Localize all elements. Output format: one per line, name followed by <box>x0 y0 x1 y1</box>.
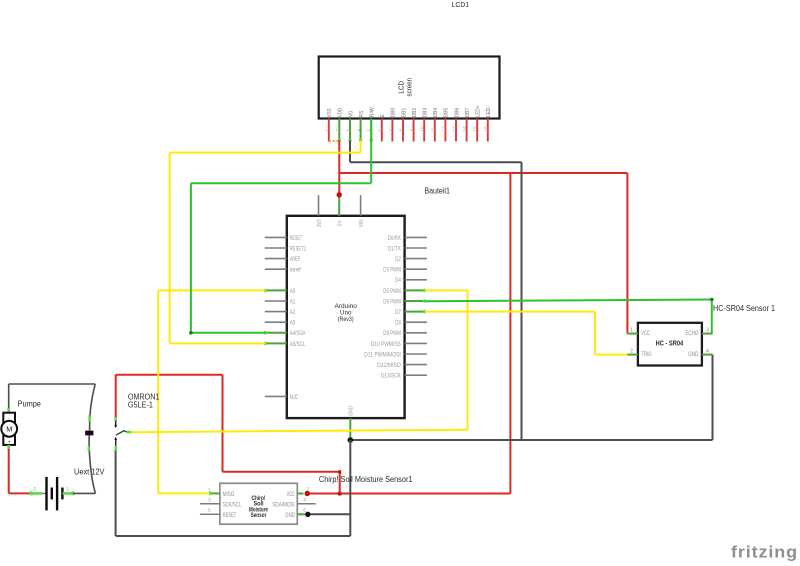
LCD pin 12 DB5 <box>441 108 450 142</box>
Arduino right pin D7 <box>395 310 426 316</box>
wire red branch to chirp VCC vertical <box>509 173 511 494</box>
Arduino Uno main body U1 <box>287 216 405 418</box>
svg-text:LCD1: LCD1 <box>452 0 470 9</box>
Arduino right pin D1/TX <box>388 246 427 252</box>
Arduino internal title <box>335 303 358 323</box>
svg-text:3: 3 <box>208 498 211 504</box>
svg-text:VCC: VCC <box>287 491 295 498</box>
junction 5V node red dot <box>337 192 342 197</box>
svg-text:4: 4 <box>706 349 709 355</box>
Arduino left pin ioref <box>265 268 301 274</box>
Arduino right pin D9 PWM <box>383 331 427 337</box>
svg-text:R/W: R/W <box>370 107 376 117</box>
wire green D6 to HC-SR04 ECHO <box>425 298 714 334</box>
svg-text:Chirp! Soil Moisture Sensor1: Chirp! Soil Moisture Sensor1 <box>319 475 413 484</box>
svg-text:16: 16 <box>483 126 488 131</box>
HC-SR04 pin 1 VCC <box>627 328 650 337</box>
svg-text:-: - <box>8 416 10 422</box>
svg-text:1: 1 <box>630 328 633 334</box>
HC-SR04 body U2 <box>638 323 702 366</box>
svg-text:E: E <box>380 114 386 117</box>
LCD pin 9 DB2 <box>409 108 418 142</box>
svg-text:TRIG: TRIG <box>641 351 651 358</box>
LCD screen body <box>319 57 500 119</box>
LCD pin 4 RS <box>356 111 365 142</box>
wire red to HC-SR04 VCC vertical <box>626 173 628 334</box>
svg-text:2: 2 <box>33 487 36 493</box>
battery cells <box>47 477 63 511</box>
svg-text:12: 12 <box>441 126 446 131</box>
Arduino pin 5V <box>338 195 344 226</box>
battery pin 2 (left) <box>29 487 46 495</box>
Arduino left pin A4/SDA <box>264 331 306 337</box>
motor body <box>1 413 17 446</box>
svg-text:DB6: DB6 <box>454 108 460 117</box>
svg-text:VSS: VSS <box>327 108 333 117</box>
svg-text:D0/RX: D0/RX <box>388 236 401 242</box>
svg-text:N/C: N/C <box>290 395 299 401</box>
svg-text:D9 PWM: D9 PWM <box>383 331 401 337</box>
svg-text:VCC: VCC <box>641 330 650 337</box>
Arduino left pin A1 <box>265 299 296 305</box>
svg-text:GND: GND <box>688 351 699 358</box>
svg-text:3: 3 <box>706 328 709 334</box>
svg-text:VDD: VDD <box>338 108 344 117</box>
wire gray pump top to coil (wavy) <box>9 384 96 431</box>
Arduino right pin D3 PWM <box>383 268 427 274</box>
svg-text:G5LE-1: G5LE-1 <box>128 400 154 409</box>
LCD pin 15 LED+ <box>473 105 482 141</box>
Arduino left pin RESET <box>265 236 303 242</box>
Arduino right pin D13/SCK <box>381 374 427 380</box>
Chirp sensor body U3 <box>220 483 297 524</box>
wire red VDD down to 5V junction <box>338 140 340 195</box>
wire gray GND bus horizontal <box>350 439 712 441</box>
Arduino right pin D10 PWM/SS <box>371 342 427 348</box>
junction GND node dot <box>348 437 354 443</box>
LCD pin 7 DB0 <box>388 108 397 142</box>
svg-text:D6 PWM: D6 PWM <box>383 299 401 305</box>
Chirp pin 4 SDA/MOSI <box>272 498 315 509</box>
svg-text:13: 13 <box>452 126 457 131</box>
svg-text:GND: GND <box>285 512 295 519</box>
svg-text:M: M <box>6 425 12 434</box>
wire gray coil to battery plus (wavy) <box>89 435 96 493</box>
svg-text:GND: GND <box>349 406 355 416</box>
svg-text:14: 14 <box>462 126 467 131</box>
Arduino left pin A2 <box>265 310 296 316</box>
wire yellow LCD RS to A5/SCL <box>170 141 361 344</box>
svg-text:D10 PWM/SS: D10 PWM/SS <box>371 342 401 348</box>
HC-SR04 pin 4 GND <box>688 349 712 358</box>
LCD pin 6 E <box>377 114 386 141</box>
svg-text:DB2: DB2 <box>412 108 418 117</box>
LCD pin 13 DB6 <box>452 108 461 142</box>
HC-SR04 pin 3 ECHO <box>685 328 712 337</box>
Arduino right pin D0/RX <box>388 236 427 242</box>
svg-text:SDA/MOSI: SDA/MOSI <box>272 501 294 508</box>
svg-text:D4: D4 <box>395 278 401 284</box>
svg-text:LCD: LCD <box>398 81 405 94</box>
svg-text:DB4: DB4 <box>433 107 439 117</box>
LCD pin 16 LED- <box>483 106 492 142</box>
Arduino right pin D12/MISO <box>377 363 427 369</box>
svg-text:5: 5 <box>208 508 211 514</box>
svg-text:Uext 12V: Uext 12V <box>74 468 105 477</box>
svg-text:(Rev3): (Rev3) <box>338 316 354 323</box>
svg-text:11: 11 <box>430 126 435 131</box>
svg-text:3V3: 3V3 <box>317 219 323 227</box>
Arduino pin VIN <box>359 195 365 227</box>
junction relay branch red dot <box>338 491 342 495</box>
LCD pin 11 DB4 <box>430 107 439 141</box>
Arduino pin GND <box>349 406 355 440</box>
wire gray HC-SR04 GND drop <box>712 355 714 440</box>
LCD pin 10 DB3 <box>420 108 429 142</box>
svg-text:1: 1 <box>208 488 211 494</box>
svg-text:Bauteil1: Bauteil1 <box>424 187 450 196</box>
Arduino right pin D8 <box>395 321 427 327</box>
ratsnest VSS-VDD dashed <box>329 140 340 142</box>
svg-text:ioref: ioref <box>290 268 301 274</box>
LCD pin 2 VDD <box>335 108 344 142</box>
svg-text:AREF: AREF <box>290 257 301 263</box>
svg-text:DB3: DB3 <box>423 108 429 117</box>
svg-text:D7: D7 <box>395 310 401 316</box>
Chirp pin 1 MISO <box>208 488 234 498</box>
LCD pin 5 R/W <box>367 107 376 142</box>
LCD pin 8 DB1 <box>399 108 408 142</box>
HC-SR04 pin 2 TRIG <box>627 349 651 358</box>
junction chirp VCC wire end red dot <box>305 491 310 496</box>
svg-text:A1: A1 <box>290 299 296 305</box>
svg-text:A4/SDA: A4/SDA <box>290 331 306 337</box>
wire gray GND down to chirp/relay <box>116 440 351 536</box>
wire red chirp VCC horizontal <box>307 493 510 495</box>
wire green LCD R/W to A4/SDA <box>189 119 371 335</box>
svg-text:screen: screen <box>407 78 414 97</box>
LCD pin 3 V0 <box>346 111 355 142</box>
LCD pin 1 VSS <box>324 108 333 141</box>
Arduino left pin RESET2 <box>265 246 306 252</box>
Arduino right pin D4 <box>395 278 427 284</box>
svg-text:D5 PWM: D5 PWM <box>383 289 401 295</box>
svg-text:HC - SR04: HC - SR04 <box>656 340 684 347</box>
relay K1 OMRON1 G5LE-1 label <box>128 393 160 410</box>
Arduino right pin D5 PWM <box>383 289 426 295</box>
wire gray motor top lead <box>8 384 10 413</box>
svg-text:A2: A2 <box>290 310 296 316</box>
wire red 5V bus horizontal <box>339 172 627 174</box>
svg-text:D11 PWM/MOSI: D11 PWM/MOSI <box>364 352 401 358</box>
junction chirp GND black dot <box>305 512 310 517</box>
svg-text:ECHO: ECHO <box>685 330 698 337</box>
svg-text:1: 1 <box>66 487 69 493</box>
wire red relay coil branch <box>116 375 342 494</box>
wire yellow D5 to relay switch <box>131 290 468 432</box>
LCD pin 14 DB7 <box>462 108 471 142</box>
svg-text:DB0: DB0 <box>391 108 397 117</box>
relay switch SPST contact <box>114 417 131 451</box>
svg-text:VIN: VIN <box>359 219 365 227</box>
Arduino right pin D11 PWM/MOSI <box>364 352 427 358</box>
wire red motor minus to battery <box>9 445 31 494</box>
svg-text:10: 10 <box>420 126 425 131</box>
svg-text:RESET: RESET <box>290 236 303 242</box>
battery pin 1 (right) <box>62 487 95 495</box>
svg-text:A5/SCL: A5/SCL <box>290 342 306 348</box>
Arduino left pin A5/SCL <box>264 342 306 348</box>
Chirp pin 3 SCK/SCL <box>200 498 242 509</box>
svg-text:+: + <box>8 440 11 446</box>
Chirp pin 2 VCC <box>287 487 310 498</box>
svg-text:6: 6 <box>303 508 306 514</box>
svg-text:D8: D8 <box>395 321 401 327</box>
svg-text:A3: A3 <box>290 321 296 327</box>
svg-text:fritzing: fritzing <box>731 543 798 561</box>
wire gray LCD V0 to GND bus <box>350 141 522 441</box>
relay coil (black bar) <box>85 431 93 436</box>
Chirp pin 5 RESET <box>200 508 236 519</box>
Chirp pin 6 GND <box>285 508 306 519</box>
svg-text:RS: RS <box>359 111 365 117</box>
svg-text:D13/SCK: D13/SCK <box>381 374 401 380</box>
LCD screen title text <box>398 78 413 97</box>
svg-text:2: 2 <box>630 349 633 355</box>
svg-text:4: 4 <box>303 498 306 504</box>
svg-text:DB1: DB1 <box>401 108 407 117</box>
svg-text:D12/MISO: D12/MISO <box>377 363 401 369</box>
svg-text:RESET2: RESET2 <box>290 246 307 252</box>
svg-text:V0: V0 <box>348 111 354 117</box>
svg-text:HC-SR04 Sensor 1: HC-SR04 Sensor 1 <box>713 304 775 313</box>
svg-text:LED+: LED+ <box>476 105 482 117</box>
svg-text:Pumpe: Pumpe <box>18 400 42 409</box>
Arduino pin 3V3 <box>317 195 323 227</box>
svg-text:D1/TX: D1/TX <box>388 246 401 252</box>
svg-text:2: 2 <box>306 487 309 493</box>
wire yellow D7 to HC-SR04 TRIG <box>425 312 628 355</box>
svg-text:15: 15 <box>473 126 478 131</box>
svg-text:MISO: MISO <box>223 491 235 498</box>
svg-text:Sensor: Sensor <box>251 513 267 519</box>
Arduino right pin D6 PWM <box>383 299 426 305</box>
Arduino right pin D2 <box>395 257 427 263</box>
Arduino left pin N/C <box>265 395 299 401</box>
svg-text:D2: D2 <box>395 257 401 263</box>
Chirp internal title <box>249 496 268 519</box>
wire yellow A0 to chirp MISO <box>158 290 265 493</box>
Arduino left pin AREF <box>265 257 301 263</box>
Arduino left pin A0 <box>264 289 296 295</box>
svg-text:DB5: DB5 <box>444 108 450 117</box>
svg-text:D3 PWM: D3 PWM <box>383 268 401 274</box>
svg-text:RESET: RESET <box>223 512 237 519</box>
svg-text:DB7: DB7 <box>465 108 471 117</box>
svg-text:SCK/SCL: SCK/SCL <box>223 501 242 508</box>
svg-text:5V: 5V <box>338 220 344 226</box>
svg-text:A0: A0 <box>290 289 296 295</box>
Arduino left pin A3 <box>265 321 296 327</box>
svg-text:LED-: LED- <box>486 106 492 117</box>
